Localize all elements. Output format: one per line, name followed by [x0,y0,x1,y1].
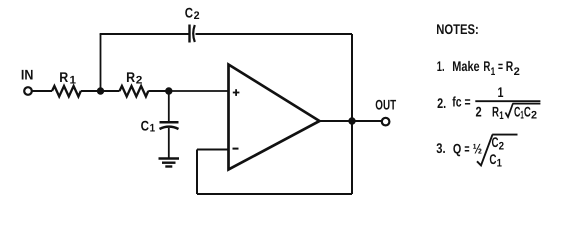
svg-text:IN: IN [21,67,34,83]
OUT terminal [382,118,390,126]
svg-text:2.: 2. [437,95,446,111]
svg-text:C: C [489,151,496,167]
svg-text:2: 2 [531,110,537,122]
wire top rail right segment [196,33,353,35]
svg-text:3.: 3. [436,140,445,156]
svg-text:C: C [141,118,149,134]
svg-text:OUT: OUT [375,96,396,112]
op-amp + input marker [233,89,240,96]
wire right vertical rail (C2 to output to feedback) [351,34,353,194]
wire node B to op-amp + input [169,90,229,92]
svg-text:2: 2 [514,66,520,78]
svg-text:R: R [483,58,490,74]
capacitor C1 [160,122,179,129]
svg-text:1: 1 [499,110,503,122]
note 3 radical [477,135,518,166]
resistor R1 [52,86,81,97]
wire feedback left vertical [196,150,198,195]
svg-text:=: = [464,140,469,156]
wire feedback bottom rail [197,193,352,195]
wire top rail left segment [100,33,190,35]
svg-text:½: ½ [473,140,483,156]
resistor R2 [120,86,149,97]
note 1: Make R1 = R2 [437,58,520,78]
svg-text:R: R [59,69,68,85]
svg-text:R: R [506,58,514,74]
node A (R1-R2-C2 junction) [97,87,104,94]
wire R1 to node A [81,90,101,92]
svg-text:=: = [498,58,503,74]
note 3: Q = 1/2 sqrt(C2/C1) [436,134,504,170]
svg-text:1: 1 [150,123,156,135]
svg-text:2: 2 [476,104,482,120]
svg-text:2: 2 [499,140,504,152]
svg-text:C: C [185,5,193,21]
op-amp - input marker [233,148,239,150]
wire node A to R2 [101,90,120,92]
node C (output junction) [348,117,355,124]
svg-text:2: 2 [136,75,143,87]
note 2 fraction bar [475,100,540,102]
svg-text:2: 2 [194,10,200,22]
svg-text:R: R [492,104,499,120]
note 2: fc = 1 / (2 R1 sqrt(C1C2)) [437,84,537,122]
IN terminal [24,87,32,95]
op-amp U1 [229,65,320,170]
wire IN to R1 [32,90,52,92]
svg-text:NOTES:: NOTES: [436,21,479,37]
ground [159,159,180,167]
svg-text:R: R [126,69,135,85]
wire node A up to top rail [100,34,102,91]
svg-text:1: 1 [498,84,504,100]
wire node B down to C1 [168,91,170,121]
wire feedback to - input [197,149,229,151]
node B (R2-C1 junction) [165,87,172,94]
svg-text:C: C [524,104,531,120]
svg-text:1.: 1. [437,58,445,74]
wire R2 to node B [148,90,169,92]
svg-text:1: 1 [70,75,77,87]
wire C1 to ground [168,128,170,158]
svg-text:Make: Make [452,58,479,74]
svg-text:1: 1 [497,158,502,170]
svg-text:fc =: fc = [452,93,470,109]
note 2 radical [505,104,540,117]
wire op-amp output [320,120,382,122]
svg-text:1: 1 [491,66,496,78]
capacitor C2 [190,25,195,43]
svg-text:Q: Q [453,140,461,156]
